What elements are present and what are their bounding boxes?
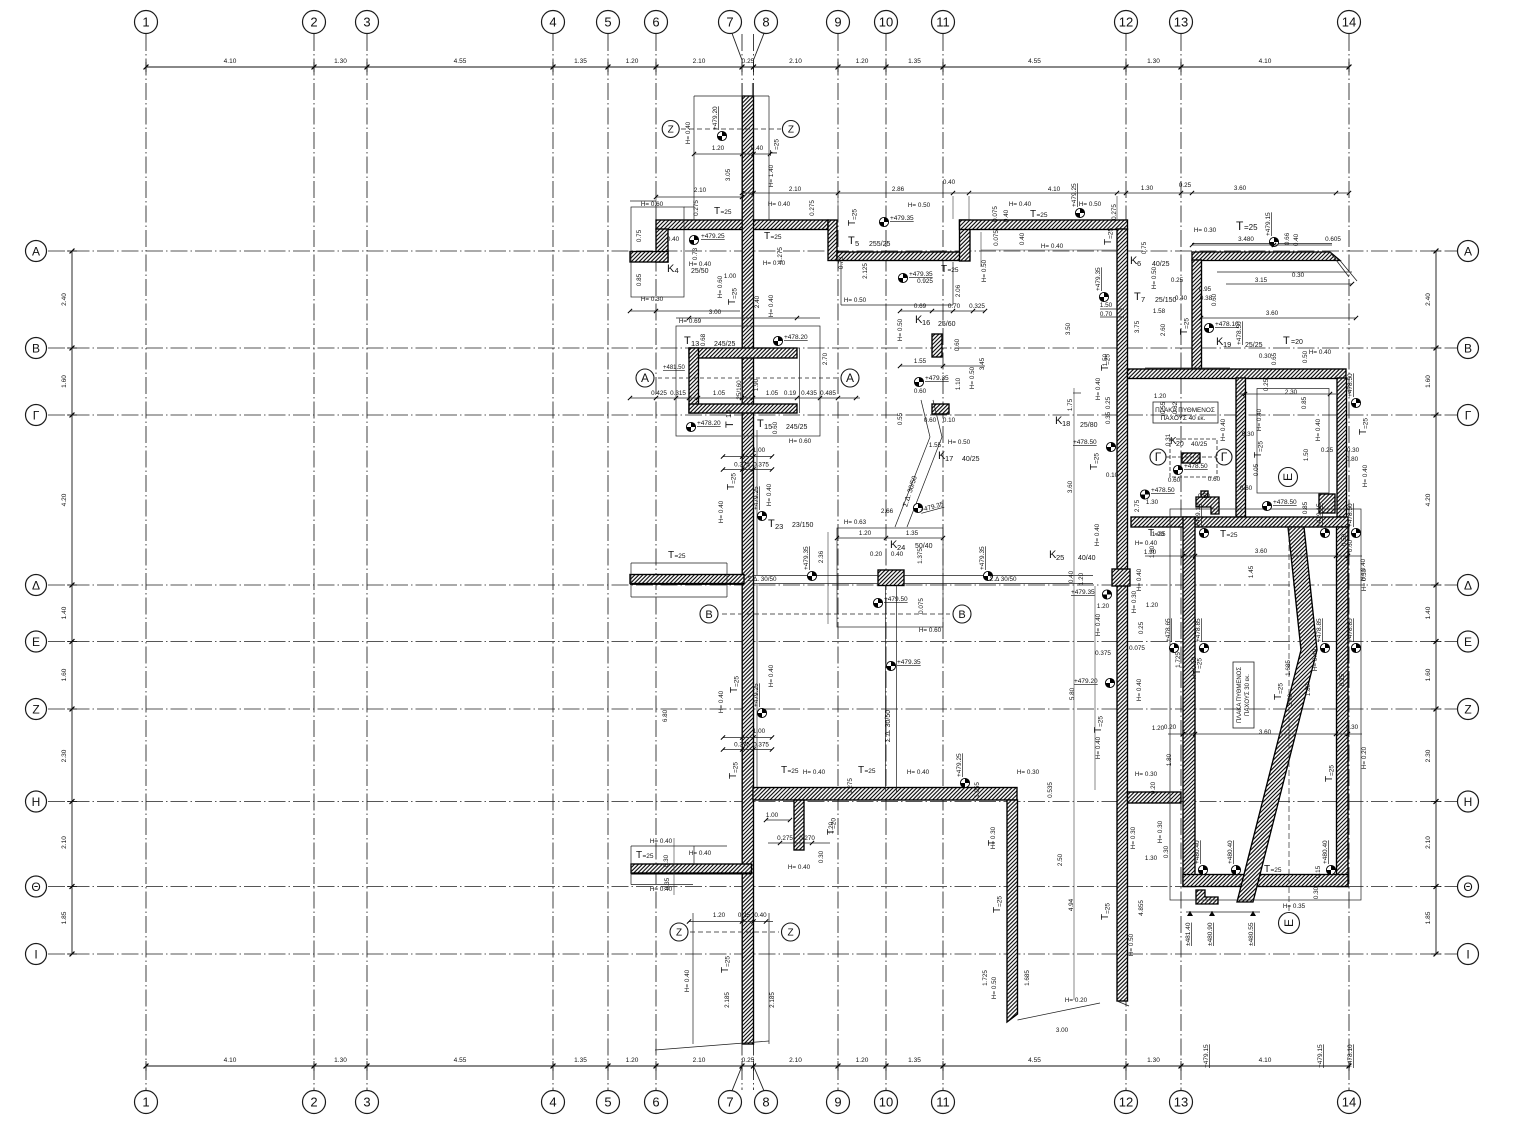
- svg-text:4.10: 4.10: [1259, 58, 1272, 65]
- svg-text:2: 2: [310, 15, 317, 30]
- svg-text:=25: =25: [733, 762, 740, 773]
- svg-text:+479.15: +479.15: [1203, 1044, 1210, 1068]
- svg-text:=25: =25: [1244, 223, 1258, 232]
- svg-text:Σ.Δ. 30/50: Σ.Δ. 30/50: [885, 710, 892, 742]
- svg-text:4: 4: [675, 266, 679, 275]
- svg-text:=20: =20: [1291, 339, 1303, 346]
- svg-text:2.50: 2.50: [1057, 853, 1064, 866]
- svg-text:4.10: 4.10: [1048, 186, 1061, 193]
- svg-text:7: 7: [1141, 295, 1145, 304]
- svg-text:A: A: [641, 371, 649, 385]
- svg-text:1.40: 1.40: [1425, 606, 1432, 619]
- svg-text:H= 0.40: H= 0.40: [768, 294, 775, 317]
- svg-text:0.25: 0.25: [742, 1057, 755, 1064]
- svg-text:=25: =25: [1258, 441, 1265, 452]
- svg-text:Ε: Ε: [1464, 635, 1472, 649]
- svg-text:5: 5: [604, 15, 611, 30]
- svg-text:H= 0.60: H= 0.60: [789, 438, 812, 445]
- svg-text:H= 0.60: H= 0.60: [919, 627, 942, 634]
- svg-text:Σ.Δ 30/50: Σ.Δ 30/50: [989, 576, 1017, 583]
- svg-text:+478.50: +478.50: [1347, 373, 1354, 397]
- svg-text:+478.85: +478.85: [1347, 618, 1354, 642]
- svg-text:0.30: 0.30: [1292, 272, 1305, 279]
- svg-text:=25: =25: [1227, 532, 1238, 539]
- svg-text:0.25: 0.25: [1138, 621, 1145, 634]
- svg-text:1.20: 1.20: [626, 58, 639, 65]
- svg-text:1.30: 1.30: [1147, 1057, 1160, 1064]
- svg-text:Z: Z: [676, 928, 682, 939]
- svg-text:3.60: 3.60: [1255, 548, 1268, 555]
- svg-text:0.30: 0.30: [1259, 353, 1272, 360]
- svg-text:0.25: 0.25: [1105, 396, 1112, 409]
- svg-text:14: 14: [724, 410, 733, 418]
- svg-text:1.20: 1.20: [1152, 725, 1165, 732]
- svg-text:0.60: 0.60: [1211, 293, 1218, 306]
- svg-text:3.15: 3.15: [1255, 277, 1268, 284]
- svg-text:Ζ: Ζ: [32, 702, 39, 716]
- svg-text:H= 0.30: H= 0.30: [1017, 769, 1040, 776]
- svg-text:0.375: 0.375: [734, 742, 750, 749]
- svg-text:245/25: 245/25: [786, 424, 808, 431]
- svg-text:T: T: [941, 264, 947, 275]
- svg-text:0.05: 0.05: [1253, 463, 1260, 476]
- svg-text:+481.50: +481.50: [663, 365, 686, 371]
- svg-text:1.20: 1.20: [713, 912, 726, 919]
- svg-text:Γ: Γ: [1221, 450, 1228, 464]
- svg-text:3.75: 3.75: [1134, 320, 1141, 333]
- svg-text:Z: Z: [788, 125, 794, 136]
- svg-text:H= 0.40: H= 0.40: [1095, 377, 1102, 400]
- svg-text:1.275: 1.275: [847, 778, 854, 794]
- svg-text:=25: =25: [731, 473, 738, 484]
- svg-text:2.10: 2.10: [789, 58, 802, 65]
- svg-text:+479.35: +479.35: [925, 375, 949, 382]
- svg-text:1.30: 1.30: [1146, 499, 1159, 506]
- svg-text:1.50: 1.50: [1102, 353, 1109, 366]
- svg-text:0.535: 0.535: [1047, 782, 1054, 798]
- svg-text:H= 0.40: H= 0.40: [1309, 349, 1332, 356]
- svg-text:0.375: 0.375: [734, 462, 750, 469]
- svg-text:T: T: [1220, 529, 1226, 540]
- svg-text:B: B: [958, 609, 965, 621]
- svg-text:1.685: 1.685: [1024, 970, 1031, 986]
- svg-text:1.20: 1.20: [859, 530, 872, 537]
- svg-text:T: T: [668, 550, 674, 561]
- svg-text:0.25: 0.25: [1321, 447, 1334, 454]
- svg-text:3.50: 3.50: [1065, 322, 1072, 335]
- svg-text:0.25: 0.25: [738, 912, 751, 919]
- svg-text:H= 0.60: H= 0.60: [641, 201, 664, 208]
- svg-text:1: 1: [142, 1095, 149, 1110]
- svg-text:2.30: 2.30: [1285, 389, 1298, 396]
- svg-text:H= 0.40: H= 0.40: [1041, 243, 1064, 250]
- svg-text:4: 4: [549, 1095, 556, 1110]
- svg-text:1.725: 1.725: [982, 970, 989, 986]
- svg-text:+478.65: +478.65: [1165, 618, 1172, 642]
- svg-text:H= 1.40: H= 1.40: [768, 164, 775, 187]
- svg-text:=25: =25: [997, 896, 1004, 907]
- svg-text:H= 0.40: H= 0.40: [1009, 201, 1032, 208]
- svg-text:7: 7: [726, 15, 733, 30]
- svg-text:0.19: 0.19: [784, 390, 797, 397]
- svg-text:+478.10: +478.10: [1347, 1044, 1354, 1068]
- svg-text:T: T: [1030, 209, 1036, 220]
- svg-text:T: T: [1134, 291, 1141, 303]
- svg-text:3.60: 3.60: [1234, 185, 1247, 192]
- svg-text:H= 0.40: H= 0.40: [763, 260, 786, 267]
- svg-text:=25: =25: [725, 956, 732, 967]
- svg-text:1.20: 1.20: [1152, 531, 1165, 538]
- svg-text:18: 18: [1062, 419, 1070, 428]
- svg-text:4.20: 4.20: [61, 493, 68, 506]
- svg-text:17: 17: [945, 454, 953, 463]
- svg-text:+479.25: +479.25: [753, 486, 760, 510]
- svg-text:0.605: 0.605: [1325, 236, 1341, 243]
- svg-text:H= 0.30: H= 0.30: [1130, 826, 1137, 849]
- svg-text:14: 14: [1342, 1095, 1356, 1110]
- svg-text:0.435: 0.435: [801, 390, 817, 397]
- svg-text:H= 0.50: H= 0.50: [948, 439, 971, 446]
- svg-text:25: 25: [1056, 553, 1064, 562]
- svg-text:4.10: 4.10: [1259, 1057, 1272, 1064]
- svg-text:H= 0.40: H= 0.40: [1135, 540, 1158, 547]
- svg-text:3.00: 3.00: [709, 309, 722, 316]
- svg-text:0.30: 0.30: [1346, 724, 1359, 731]
- svg-text:H= 0.40: H= 0.40: [718, 690, 725, 713]
- svg-text:0.30: 0.30: [1242, 431, 1255, 438]
- svg-text:0.075: 0.075: [993, 230, 1000, 246]
- svg-text:10: 10: [879, 15, 893, 30]
- svg-text:0.95: 0.95: [1199, 286, 1212, 293]
- svg-text:1.50: 1.50: [1303, 448, 1310, 461]
- svg-text:+479.35: +479.35: [897, 659, 921, 666]
- svg-text:0.25: 0.25: [742, 58, 755, 65]
- svg-text:0.50: 0.50: [1302, 350, 1309, 363]
- svg-text:1.35: 1.35: [574, 1057, 587, 1064]
- svg-text:2.06: 2.06: [955, 284, 962, 297]
- svg-text:4.10: 4.10: [224, 58, 237, 65]
- svg-text:2.30: 2.30: [1425, 749, 1432, 762]
- svg-text:H= 0.40: H= 0.40: [907, 769, 930, 776]
- svg-text:H= 0.40: H= 0.40: [788, 864, 811, 871]
- svg-text:2.10: 2.10: [789, 1057, 802, 1064]
- svg-text:1.50: 1.50: [1100, 302, 1113, 309]
- svg-text:1.20: 1.20: [1097, 603, 1110, 610]
- svg-text:23/150: 23/150: [792, 522, 814, 529]
- svg-text:T: T: [1264, 864, 1270, 875]
- svg-text:4.855: 4.855: [1138, 900, 1145, 916]
- svg-text:0.40: 0.40: [1019, 232, 1026, 245]
- svg-text:H= 0.50: H= 0.50: [844, 297, 867, 304]
- svg-text:0.35: 0.35: [1105, 411, 1112, 424]
- svg-text:H= 0.30: H= 0.30: [1135, 771, 1158, 778]
- svg-text:H= 0.40: H= 0.40: [689, 261, 712, 268]
- svg-text:1: 1: [142, 15, 149, 30]
- svg-text:H= 0.40: H= 0.40: [684, 969, 691, 992]
- svg-text:H= 0.40: H= 0.40: [689, 850, 712, 857]
- svg-text:H= 0.30: H= 0.30: [1194, 227, 1217, 234]
- svg-text:H= 0.40: H= 0.40: [650, 838, 673, 845]
- svg-text:=25: =25: [675, 553, 686, 560]
- svg-text:H= 0.40: H= 0.40: [1095, 736, 1102, 759]
- svg-text:0.375: 0.375: [1095, 650, 1111, 657]
- svg-text:H= 0.50: H= 0.50: [969, 366, 976, 389]
- svg-text:Β: Β: [1464, 341, 1472, 355]
- svg-text:6: 6: [652, 1095, 659, 1110]
- svg-text:1.80: 1.80: [1305, 683, 1312, 696]
- svg-text:0.30: 0.30: [663, 854, 670, 867]
- svg-text:=25: =25: [1329, 765, 1336, 776]
- svg-text:0.10: 0.10: [943, 417, 956, 424]
- svg-text:H= 0.30: H= 0.30: [1131, 590, 1138, 613]
- svg-text:H= 0.20: H= 0.20: [1065, 997, 1088, 1004]
- svg-text:+478.20: +478.20: [697, 420, 721, 427]
- svg-text:1.55: 1.55: [914, 358, 927, 365]
- svg-text:H= 0.40: H= 0.40: [718, 500, 725, 523]
- svg-text:3.00: 3.00: [1056, 1027, 1069, 1034]
- svg-text:13: 13: [691, 339, 699, 348]
- svg-text:Γ: Γ: [33, 408, 40, 422]
- svg-text:3.480: 3.480: [1238, 236, 1254, 243]
- svg-text:+479.35: +479.35: [1095, 267, 1102, 291]
- svg-text:0.15: 0.15: [1315, 865, 1322, 878]
- svg-text:3: 3: [363, 15, 370, 30]
- svg-text:3.60: 3.60: [1266, 310, 1279, 317]
- svg-text:H= 0.40: H= 0.40: [1136, 568, 1143, 591]
- svg-text:H= 0.40: H= 0.40: [1094, 523, 1101, 546]
- svg-text:+478.50: +478.50: [1273, 499, 1297, 506]
- svg-text:+478.50: +478.50: [1236, 321, 1243, 345]
- svg-text:0.275: 0.275: [693, 200, 700, 216]
- svg-text:13: 13: [1174, 1095, 1188, 1110]
- svg-text:0.30: 0.30: [818, 850, 825, 863]
- svg-text:0.20: 0.20: [1164, 724, 1177, 731]
- svg-text:T: T: [1283, 335, 1290, 347]
- svg-text:+478.85: +478.85: [1316, 618, 1323, 642]
- svg-text:0.73: 0.73: [838, 256, 845, 269]
- svg-text:3.60: 3.60: [1067, 480, 1074, 493]
- svg-text:0.60: 0.60: [954, 338, 961, 351]
- svg-text:3.60: 3.60: [1287, 693, 1294, 706]
- svg-text:H= 0.63: H= 0.63: [844, 519, 867, 526]
- svg-text:+478.50: +478.50: [1347, 503, 1354, 527]
- svg-text:1.10: 1.10: [955, 377, 962, 390]
- svg-text:0.60: 0.60: [772, 421, 779, 434]
- svg-text:4.55: 4.55: [454, 1057, 467, 1064]
- svg-text:3.45: 3.45: [979, 357, 986, 370]
- svg-text:Ε: Ε: [32, 635, 40, 649]
- svg-text:=25: =25: [1271, 867, 1282, 874]
- svg-text:0.60: 0.60: [924, 417, 937, 424]
- svg-text:25/80: 25/80: [1080, 422, 1098, 429]
- svg-text:T: T: [1236, 219, 1244, 233]
- svg-text:T: T: [757, 418, 764, 430]
- svg-text:25/150: 25/150: [1155, 297, 1177, 304]
- svg-text:1.35: 1.35: [574, 58, 587, 65]
- svg-text:1.20: 1.20: [712, 145, 725, 152]
- svg-text:+479.35: +479.35: [979, 546, 986, 570]
- svg-text:T: T: [858, 765, 864, 776]
- svg-text:40/40: 40/40: [1078, 555, 1096, 562]
- svg-text:+478.50: +478.50: [1073, 439, 1097, 446]
- svg-text:0.66: 0.66: [1284, 232, 1291, 245]
- svg-text:H= 0.30: H= 0.30: [990, 826, 997, 849]
- svg-text:0.60: 0.60: [1168, 477, 1181, 484]
- svg-text:3: 3: [363, 1095, 370, 1110]
- svg-text:0.20: 0.20: [870, 551, 883, 558]
- svg-text:6: 6: [1137, 259, 1141, 268]
- svg-text:H= 0.60: H= 0.60: [717, 275, 724, 298]
- svg-text:H= 0.30: H= 0.30: [1361, 568, 1368, 591]
- svg-text:0.275: 0.275: [809, 200, 816, 216]
- svg-text:+479.25: +479.25: [753, 683, 760, 707]
- svg-text:2.10: 2.10: [694, 187, 707, 194]
- svg-text:0.270: 0.270: [799, 835, 815, 842]
- svg-text:T: T: [684, 335, 691, 347]
- svg-text:0.68: 0.68: [700, 333, 707, 346]
- svg-text:1.00: 1.00: [753, 728, 766, 735]
- svg-text:1.80: 1.80: [1166, 753, 1173, 766]
- svg-text:0.40: 0.40: [754, 912, 767, 919]
- svg-text:+479.25: +479.25: [956, 753, 963, 777]
- svg-text:0.25: 0.25: [1179, 182, 1192, 189]
- svg-text:12: 12: [1119, 1095, 1133, 1110]
- svg-text:1.20: 1.20: [856, 58, 869, 65]
- svg-text:0.25: 0.25: [1263, 378, 1270, 391]
- svg-text:4.55: 4.55: [1028, 1057, 1041, 1064]
- svg-text:2.30: 2.30: [61, 749, 68, 762]
- svg-text:0.075: 0.075: [1129, 645, 1145, 652]
- svg-text:14: 14: [1342, 15, 1356, 30]
- svg-text:H= 0.40: H= 0.40: [803, 769, 826, 776]
- svg-text:=25: =25: [1094, 453, 1101, 464]
- svg-text:T: T: [848, 235, 855, 247]
- svg-text:H= 0.40: H= 0.40: [1220, 418, 1227, 441]
- svg-text:H= 0.40: H= 0.40: [1136, 678, 1143, 701]
- svg-text:2: 2: [310, 1095, 317, 1110]
- svg-text:2.10: 2.10: [1425, 836, 1432, 849]
- svg-text:6.80: 6.80: [662, 709, 669, 722]
- svg-text:+479.25: +479.25: [1071, 183, 1078, 207]
- svg-text:0.20: 0.20: [1150, 781, 1157, 794]
- svg-text:245/25: 245/25: [714, 341, 736, 348]
- svg-text:2.75: 2.75: [1134, 499, 1141, 512]
- svg-text:1.35: 1.35: [908, 58, 921, 65]
- svg-text:2.10: 2.10: [61, 836, 68, 849]
- svg-text:=25: =25: [1184, 318, 1191, 329]
- svg-text:+478.50: +478.50: [1151, 487, 1175, 494]
- svg-text:1.90: 1.90: [753, 378, 760, 391]
- svg-text:25/25: 25/25: [1245, 342, 1263, 349]
- svg-text:Γ: Γ: [1465, 408, 1472, 422]
- svg-text:B: B: [705, 609, 712, 621]
- svg-text:5.80: 5.80: [1069, 687, 1076, 700]
- svg-text:1.30: 1.30: [334, 58, 347, 65]
- svg-text:+479.15: +479.15: [1316, 503, 1323, 527]
- svg-text:0.60: 0.60: [1347, 539, 1354, 552]
- svg-text:3.60: 3.60: [1259, 729, 1272, 736]
- svg-text:3.05: 3.05: [725, 168, 732, 181]
- svg-text:4.55: 4.55: [1028, 58, 1041, 65]
- svg-text:+478.50: +478.50: [1184, 463, 1208, 470]
- svg-text:1.20: 1.20: [1154, 393, 1167, 400]
- svg-text:2.86: 2.86: [892, 186, 905, 193]
- svg-text:H= 0.50: H= 0.50: [1128, 933, 1135, 956]
- svg-text:ΠΑΧΟΥΣ 40 εκ.: ΠΑΧΟΥΣ 40 εκ.: [1161, 415, 1206, 422]
- svg-text:0.31: 0.31: [1165, 433, 1172, 446]
- svg-text:=25: =25: [734, 676, 741, 687]
- svg-text:1.20: 1.20: [626, 1057, 639, 1064]
- svg-text:=25: =25: [1037, 212, 1048, 219]
- svg-text:=25: =25: [771, 234, 782, 241]
- svg-text:H= 0.50: H= 0.50: [1151, 266, 1158, 289]
- svg-text:H= 0.50: H= 0.50: [908, 202, 931, 209]
- svg-text:1.30: 1.30: [334, 1057, 347, 1064]
- svg-text:=25: =25: [1105, 903, 1112, 914]
- svg-text:H= 0.40: H= 0.40: [1312, 648, 1319, 671]
- svg-text:+478.85: +478.85: [1195, 618, 1202, 642]
- svg-text:0.55: 0.55: [897, 412, 904, 425]
- svg-text:H= 0.50: H= 0.50: [1079, 201, 1102, 208]
- svg-text:=25: =25: [852, 209, 859, 220]
- svg-text:0.80: 0.80: [1346, 456, 1359, 463]
- svg-text:+479.20: +479.20: [712, 106, 719, 130]
- svg-text:+480.40: +480.40: [1194, 840, 1201, 864]
- svg-text:2.10: 2.10: [789, 186, 802, 193]
- svg-text:0.40: 0.40: [1293, 233, 1300, 246]
- svg-text:0.85: 0.85: [636, 273, 643, 286]
- svg-text:6: 6: [652, 15, 659, 30]
- svg-text:0.85: 0.85: [1302, 501, 1309, 514]
- svg-text:0.075: 0.075: [992, 206, 999, 222]
- svg-text:H= 0.69: H= 0.69: [679, 318, 702, 325]
- svg-text:ΠΛΑΚΑ ΠΥΘΜΕΝΟΣ: ΠΛΑΚΑ ΠΥΘΜΕΝΟΣ: [1237, 667, 1243, 723]
- svg-text:0.30: 0.30: [1163, 845, 1170, 858]
- svg-text:1.00: 1.00: [753, 447, 766, 454]
- svg-text:1.20: 1.20: [828, 821, 835, 834]
- svg-text:5: 5: [604, 1095, 611, 1110]
- svg-text:2.40: 2.40: [754, 295, 761, 308]
- svg-text:0.60: 0.60: [914, 388, 927, 395]
- svg-text:20: 20: [1176, 441, 1184, 448]
- svg-text:5: 5: [855, 239, 859, 248]
- svg-text:+479.20: +479.20: [1074, 678, 1098, 685]
- svg-text:1.60: 1.60: [61, 375, 68, 388]
- svg-text:16: 16: [922, 318, 930, 327]
- svg-text:Δ: Δ: [1464, 578, 1472, 592]
- svg-text:0.65: 0.65: [1271, 352, 1278, 365]
- svg-text:1.685: 1.685: [1285, 660, 1292, 676]
- svg-text:H= 0.50: H= 0.50: [1191, 656, 1198, 679]
- svg-text:2.60: 2.60: [1160, 323, 1167, 336]
- svg-text:H= 0.40: H= 0.40: [1095, 613, 1102, 636]
- svg-text:4: 4: [549, 15, 556, 30]
- svg-text:1.20: 1.20: [856, 1057, 869, 1064]
- svg-text:H= 0.40: H= 0.40: [1362, 464, 1369, 487]
- svg-text:0.325: 0.325: [969, 303, 985, 310]
- svg-text:+479.25: +479.25: [701, 233, 725, 240]
- svg-text:0.485: 0.485: [820, 390, 836, 397]
- svg-text:0.10: 0.10: [1106, 472, 1119, 479]
- svg-text:H= 0.50: H= 0.50: [981, 259, 988, 282]
- svg-text:1.85: 1.85: [61, 911, 68, 924]
- svg-text:25/160: 25/160: [736, 380, 743, 400]
- svg-text:11: 11: [936, 15, 950, 30]
- svg-text:0.73: 0.73: [692, 247, 699, 260]
- svg-text:2.40: 2.40: [61, 293, 68, 306]
- svg-text:1.35: 1.35: [908, 1057, 921, 1064]
- svg-text:1.30: 1.30: [1145, 855, 1158, 862]
